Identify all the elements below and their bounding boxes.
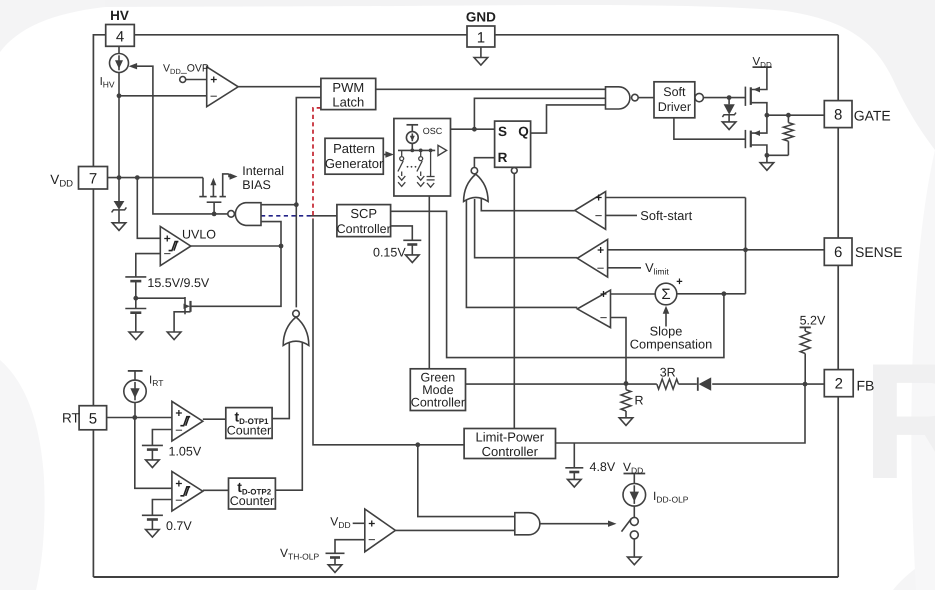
svg-text:Controller: Controller (482, 444, 539, 459)
svg-text:3R: 3R (660, 366, 676, 380)
svg-text:+: + (597, 243, 604, 257)
svg-text:0.7V: 0.7V (166, 519, 192, 533)
svg-text:−: − (600, 310, 608, 325)
svg-text:Limit-Power: Limit-Power (475, 430, 544, 445)
svg-text:4.8V: 4.8V (590, 460, 616, 474)
svg-text:UVLO: UVLO (182, 228, 216, 242)
svg-text:SCP: SCP (350, 206, 377, 221)
svg-text:+: + (368, 516, 375, 530)
svg-text:1.05V: 1.05V (169, 445, 202, 459)
svg-text:+: + (676, 276, 682, 288)
svg-text:6: 6 (834, 244, 842, 261)
svg-text:5: 5 (89, 411, 97, 428)
svg-text:GND: GND (466, 9, 496, 24)
svg-text:0.15V: 0.15V (373, 245, 406, 259)
svg-text:R: R (635, 394, 644, 408)
svg-text:−: − (595, 208, 603, 223)
svg-text:Soft-start: Soft-start (640, 208, 692, 223)
svg-text:7: 7 (89, 171, 97, 188)
svg-text:R: R (498, 150, 508, 165)
svg-text:4: 4 (116, 29, 124, 46)
svg-text:GATE: GATE (854, 107, 891, 123)
svg-text:+: + (175, 477, 182, 491)
svg-text:2: 2 (835, 376, 843, 393)
svg-text:+: + (595, 191, 602, 205)
svg-text:−: − (210, 88, 218, 103)
svg-text:+: + (175, 406, 182, 420)
svg-text:−: − (368, 532, 376, 547)
svg-text:1: 1 (477, 30, 485, 47)
svg-text:+: + (164, 231, 171, 245)
svg-text:Latch: Latch (332, 95, 364, 110)
svg-text:Generator: Generator (325, 156, 384, 171)
svg-text:−: − (597, 260, 605, 275)
svg-text:Internal: Internal (242, 164, 284, 178)
svg-text:+: + (600, 287, 607, 301)
svg-text:SENSE: SENSE (855, 244, 902, 260)
svg-text:Counter: Counter (230, 494, 274, 508)
svg-text:Controller: Controller (337, 222, 391, 236)
svg-text:PWM: PWM (332, 80, 364, 95)
svg-text:Compensation: Compensation (630, 337, 713, 352)
svg-text:R: R (862, 329, 935, 513)
svg-text:Soft: Soft (663, 85, 686, 99)
svg-text:Pattern: Pattern (333, 141, 375, 156)
svg-text:−: − (175, 422, 183, 437)
svg-text:OSC: OSC (423, 126, 443, 136)
svg-text:Counter: Counter (227, 424, 271, 438)
svg-text:Σ: Σ (661, 286, 670, 303)
svg-text:5.2V: 5.2V (800, 314, 826, 328)
svg-text:BIAS: BIAS (242, 178, 270, 192)
svg-text:HV: HV (110, 8, 129, 23)
svg-text:Controller: Controller (411, 396, 465, 410)
svg-text:Q: Q (518, 124, 529, 139)
svg-text:−: − (164, 246, 172, 261)
svg-text:15.5V/9.5V: 15.5V/9.5V (147, 276, 210, 290)
svg-text:S: S (498, 124, 507, 139)
svg-text:FB: FB (857, 378, 875, 394)
svg-text:Driver: Driver (658, 100, 691, 114)
svg-text:8: 8 (834, 107, 842, 124)
svg-text:VDD_OVP: VDD_OVP (163, 63, 209, 77)
svg-text:RT: RT (62, 411, 80, 426)
svg-text:+: + (210, 73, 217, 87)
svg-text:−: − (175, 493, 183, 508)
